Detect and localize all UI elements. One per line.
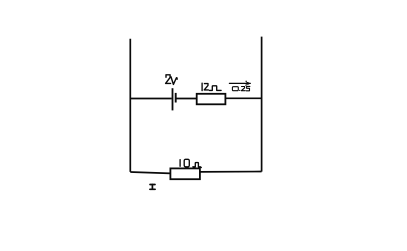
label 12 ohm (R1 value) <box>202 83 221 90</box>
battery B1 long plate (positive) <box>172 88 174 110</box>
label 10 ohm (R2 value) <box>180 159 201 167</box>
wire battery to resistor R1 <box>176 98 197 100</box>
resistor R2 box <box>170 168 200 179</box>
wire right rail (node B top to bottom-right corner) <box>261 37 263 172</box>
resistor R1 box <box>197 94 226 105</box>
wire R2 to bottom-right corner <box>200 171 262 173</box>
current arrow (direction of 0.25 A) <box>229 81 250 85</box>
label 0.25 (current value) <box>232 86 250 90</box>
wire left rail (node A top to bottom-left corner) <box>129 39 131 172</box>
label I (current symbol) <box>150 185 155 190</box>
wire bottom branch: left corner to resistor R2 <box>130 172 170 173</box>
label 2v (battery value) <box>166 75 178 85</box>
wire R1 to right rail <box>225 97 261 99</box>
battery B1 short plate (negative) <box>175 93 177 103</box>
wire middle branch: left rail to battery <box>130 98 171 100</box>
